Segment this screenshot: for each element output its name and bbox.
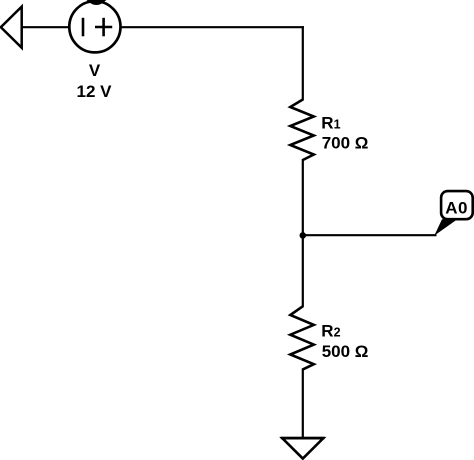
wire R2 to ground xyxy=(302,368,304,438)
port P1 (left input triangle) xyxy=(1,7,22,48)
clipped wire stub above source xyxy=(87,0,107,5)
wire port to source xyxy=(20,26,70,28)
ground (horizontal bar) xyxy=(281,437,325,440)
svg-text:500 Ω: 500 Ω xyxy=(322,342,369,361)
wire node to R2 xyxy=(302,235,304,307)
svg-text:700 Ω: 700 Ω xyxy=(322,133,369,152)
ground (triangle) xyxy=(282,438,323,458)
resistor R2 (zigzag) xyxy=(290,306,314,369)
wire source to corner (top horizontal) xyxy=(120,26,304,28)
voltage source minus terminal bar xyxy=(82,18,85,37)
wire node to net flag A0 xyxy=(303,234,437,236)
wire corner down to R1 xyxy=(302,26,304,100)
svg-text:A0: A0 xyxy=(445,199,468,218)
net flag A0 tail xyxy=(434,219,457,235)
node A (junction dot) xyxy=(300,232,307,239)
voltage source V (circle) xyxy=(69,1,120,52)
svg-text:V: V xyxy=(89,61,101,80)
voltage source plus sign xyxy=(95,26,112,29)
svg-text:12 V: 12 V xyxy=(77,82,113,101)
wire R1 to node xyxy=(302,159,304,237)
net flag A0 box xyxy=(441,191,473,219)
resistor R1 (zigzag) xyxy=(290,100,314,161)
